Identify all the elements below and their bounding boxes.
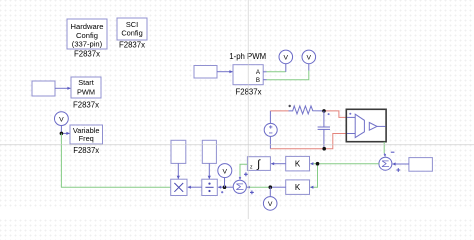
svg-text:K: K <box>295 159 301 168</box>
wire voltmeter stub down to node <box>60 126 62 134</box>
svg-text:Σ: Σ <box>236 182 245 192</box>
op-amp subsystem U1 <box>346 109 386 141</box>
wire red bottom rail <box>270 134 346 149</box>
gain K2 <box>286 180 310 195</box>
wire to Start PWM <box>55 87 70 89</box>
block Start PWM F2837x <box>71 77 101 110</box>
integrator block <box>247 157 270 171</box>
sample-time dot <box>221 191 223 193</box>
wire node into S2 right <box>247 186 270 188</box>
multiply block <box>171 179 187 195</box>
block Variable Freq F2837x <box>70 125 103 155</box>
voltmeter V (PWM B) <box>302 50 316 64</box>
constant block (blank) feeding 1-ph PWM <box>194 66 217 79</box>
wire node into K1 <box>310 163 317 165</box>
node junction S2 output <box>223 185 227 189</box>
svg-text:1-ph PWM: 1-ph PWM <box>229 52 266 61</box>
svg-text:K: K <box>295 183 301 192</box>
wire constant into multiply <box>177 163 179 178</box>
wire node into Variable Freq <box>61 132 69 134</box>
canvas bottom margin (no grid) <box>0 207 474 220</box>
wire source bottom lead <box>269 136 271 149</box>
page boundary horizontal line <box>0 144 474 146</box>
svg-text:V: V <box>59 116 64 123</box>
block Hardware Config F2837x <box>67 19 107 59</box>
svg-text:B: B <box>256 77 260 84</box>
divide block <box>202 179 218 195</box>
wire S2 output to node <box>225 186 234 188</box>
wire S1 output to node <box>318 163 379 165</box>
svg-text:PWM: PWM <box>77 88 95 97</box>
sum S2 <box>233 180 246 193</box>
wire long green frequency feedback <box>61 133 170 187</box>
voltmeter V (sum output) <box>218 164 232 178</box>
constant block (blank) above divide <box>202 140 216 163</box>
svg-text:F2837x: F2837x <box>73 146 99 155</box>
node junction resistor/capacitor <box>322 109 326 113</box>
wire node down to voltmeter <box>269 187 271 196</box>
svg-text:F2837x: F2837x <box>74 50 100 59</box>
block 1-ph PWM F2837x <box>229 52 266 96</box>
svg-text:Σ: Σ <box>381 159 390 169</box>
wire red from node to op-amp box top input <box>324 111 347 118</box>
wire divide output into multiply <box>188 186 202 188</box>
wire into PWM block <box>217 71 232 73</box>
wire PWM A output <box>263 64 286 72</box>
constant block (blank) reference <box>409 158 433 172</box>
constant block (blank) above multiply <box>171 140 186 163</box>
wire node into divide block <box>218 186 224 188</box>
wire PWM B output <box>263 64 309 80</box>
svg-text:V: V <box>223 168 228 175</box>
node junction at Variable Freq input <box>60 132 64 136</box>
wire source top lead <box>269 111 271 124</box>
plus sign at S2 top input <box>244 172 248 176</box>
wire op-amp output down to sum S1 <box>384 142 385 157</box>
capacitor C1 <box>318 111 330 149</box>
svg-text:F2837x: F2837x <box>119 40 145 49</box>
node junction S1 output <box>316 162 320 166</box>
gain K1 <box>286 156 310 171</box>
sum S1 <box>379 157 392 170</box>
plus sign at S2 right input <box>250 191 254 195</box>
voltmeter V (variable freq input) <box>55 112 69 126</box>
resistor R1 <box>289 106 325 114</box>
block SCI Config F2837x <box>117 18 147 49</box>
wire constant into divide <box>208 163 210 178</box>
wire label dot on top rail <box>289 105 291 107</box>
wire reference into S1 <box>393 163 409 165</box>
page boundary vertical line <box>247 0 249 219</box>
wire integrator output into S2 top <box>240 164 247 179</box>
minus sign at S1 top input <box>391 151 395 153</box>
wire voltmeter stub <box>224 178 226 188</box>
svg-text:Freq: Freq <box>79 134 94 143</box>
svg-text:Hardware: Hardware <box>71 22 104 31</box>
svg-text:(337-pin): (337-pin) <box>72 40 103 49</box>
probe dot near capacitor <box>328 113 330 115</box>
wire K1 into integrator <box>271 163 286 165</box>
svg-text:Config: Config <box>121 28 142 37</box>
constant block (blank) feeding Start PWM <box>32 81 55 96</box>
wire red top rail left <box>270 110 288 112</box>
voltage source V1 <box>264 123 277 136</box>
svg-text:Start: Start <box>78 78 94 87</box>
voltmeter V (capacitor voltage) <box>263 197 277 211</box>
node junction K2 output <box>269 185 273 189</box>
svg-text:V: V <box>307 55 312 62</box>
wire K2 output to node <box>270 186 285 188</box>
svg-text:V: V <box>284 55 289 62</box>
plus sign at S1 right input <box>396 168 400 172</box>
voltmeter V (PWM A) <box>279 50 293 64</box>
node junction capacitor bottom <box>322 147 326 151</box>
wire node down into K2 <box>310 164 317 188</box>
svg-text:F2837x: F2837x <box>73 101 99 110</box>
svg-text:V: V <box>268 201 273 208</box>
